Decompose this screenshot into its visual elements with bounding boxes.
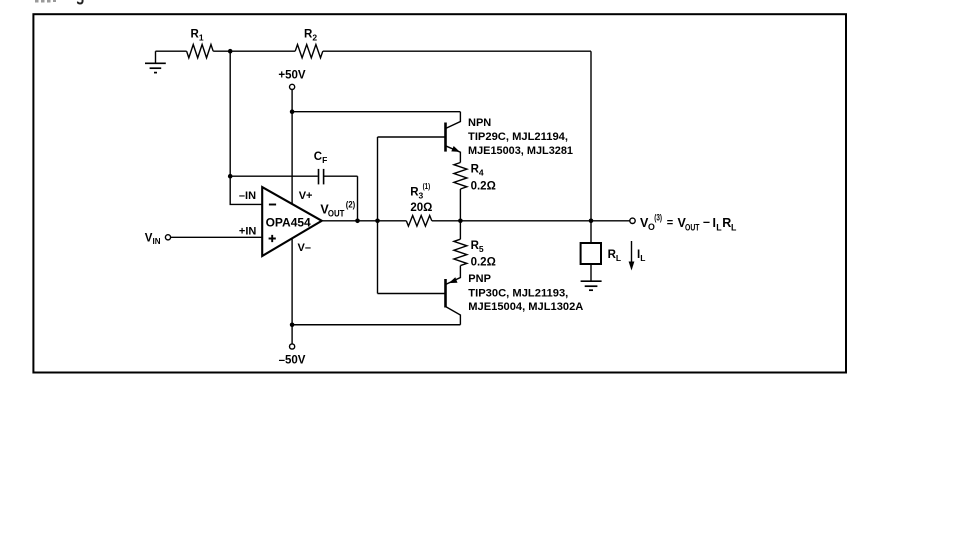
svg-text:–: –	[703, 215, 710, 229]
svg-text:R4: R4	[471, 163, 484, 177]
svg-text:V–: V–	[298, 242, 311, 254]
svg-text:MJE15004, MJL1302A: MJE15004, MJL1302A	[468, 301, 583, 313]
wire PNP base	[378, 293, 446, 295]
node: +50V rail junction	[290, 109, 295, 114]
-50V supply terminal	[291, 325, 293, 344]
wire V+ supply to op-amp	[291, 112, 293, 204]
node: feedback/-IN junction	[228, 174, 233, 179]
wire -50V rail to PNP collector	[292, 324, 460, 326]
ground (load)	[581, 281, 602, 290]
wire CF vertical to output node	[357, 176, 359, 221]
svg-text:0.2Ω: 0.2Ω	[471, 181, 496, 193]
svg-text:–IN: –IN	[239, 190, 256, 202]
wire op-amp output row	[322, 220, 407, 222]
svg-text:MJE15003, MJL3281: MJE15003, MJL3281	[468, 145, 573, 157]
wire feedback node to CF	[230, 175, 318, 177]
wire -IN node to op-amp	[230, 176, 262, 204]
svg-text:(3): (3)	[654, 213, 662, 223]
svg-text:20Ω: 20Ω	[410, 202, 432, 214]
svg-text:–50V: –50V	[279, 354, 306, 366]
wire R2 to right feedback corner	[323, 50, 591, 52]
svg-text:R3: R3	[410, 187, 423, 201]
node: load junction	[589, 219, 594, 224]
node: R1/R2/feedback junction	[228, 49, 233, 54]
cropped page text	[35, 0, 83, 4]
output terminal VO	[630, 218, 635, 223]
svg-text:(1): (1)	[423, 181, 431, 191]
wire CF to output drop	[324, 175, 358, 177]
svg-text:OUT: OUT	[328, 209, 345, 219]
wire load drop	[590, 221, 592, 243]
resistor R1	[187, 45, 214, 58]
op-amp non-inverting input mark	[269, 235, 276, 242]
node: CF connection on output	[355, 219, 360, 224]
wire +50V rail to NPN collector	[292, 111, 460, 113]
node: output/emitter junction	[458, 219, 463, 224]
wire output to VO terminal	[460, 220, 630, 222]
resistor R5	[459, 221, 461, 239]
svg-text:+IN: +IN	[239, 225, 256, 237]
svg-text:OUT: OUT	[685, 222, 700, 232]
node: base-drive connection	[375, 219, 380, 224]
wire R4 to output node	[459, 189, 461, 221]
transistor Q1 NPN	[446, 112, 461, 163]
svg-text:R: R	[722, 216, 731, 230]
wire junction down to -IN node	[229, 51, 231, 176]
svg-text:O: O	[648, 222, 655, 232]
capacitor CF	[319, 169, 324, 185]
svg-text:PNP: PNP	[468, 273, 491, 285]
svg-text:CF: CF	[314, 151, 328, 165]
svg-text:(2): (2)	[346, 200, 355, 210]
wire right feedback vertical	[590, 51, 592, 221]
svg-text:TIP29C, MJL21194,: TIP29C, MJL21194,	[468, 131, 568, 143]
wire base-drive vertical	[377, 137, 379, 294]
svg-text:+50V: +50V	[278, 69, 306, 81]
svg-text:TIP30C, MJL21193,: TIP30C, MJL21193,	[468, 287, 568, 299]
label VO(3) = VOUT - ILRL	[640, 213, 737, 233]
svg-text:L: L	[731, 222, 737, 232]
wire NPN base	[378, 136, 446, 138]
svg-text:R1: R1	[191, 28, 204, 42]
svg-text:VIN: VIN	[145, 233, 161, 247]
op-amp U1 OPA454	[262, 187, 322, 256]
resistor R3	[406, 216, 431, 227]
svg-text:IL: IL	[637, 249, 645, 263]
svg-text:0.2Ω: 0.2Ω	[471, 257, 496, 269]
wire R1 to R2	[213, 50, 295, 52]
svg-text:=: =	[667, 217, 673, 229]
node: -50V rail junction	[290, 322, 295, 327]
op-amp inverting input mark	[269, 204, 276, 206]
svg-text:OPA454: OPA454	[266, 215, 311, 229]
wire RL to ground	[590, 264, 592, 281]
wire V- supply from op-amp	[291, 238, 293, 324]
resistor R4	[454, 163, 467, 190]
resistor R2	[295, 45, 323, 58]
wire R3 to output node	[432, 220, 461, 222]
svg-text:V+: V+	[299, 190, 313, 202]
svg-text:R5: R5	[471, 240, 484, 254]
wire +50V terminal to rail	[291, 90, 293, 112]
svg-text:NPN: NPN	[468, 117, 491, 129]
svg-text:R2: R2	[304, 28, 317, 42]
wire VIN to +IN	[171, 236, 263, 238]
svg-text:L: L	[716, 222, 722, 232]
resistor RL (load box)	[581, 243, 601, 264]
current arrow IL	[631, 241, 633, 262]
transistor Q2 PNP	[446, 266, 461, 325]
ground (input, left)	[145, 51, 166, 72]
wire ground to R1	[156, 50, 187, 52]
svg-text:RL: RL	[608, 249, 622, 263]
